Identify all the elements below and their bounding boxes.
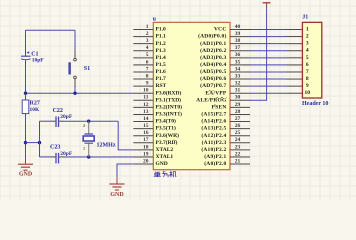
wire — [25, 114, 27, 156]
svg-text:(AD2)P0.2: (AD2)P0.2 — [200, 47, 226, 54]
wire pin 20 stub — [133, 163, 153, 165]
svg-text:XTAL1: XTAL1 — [156, 154, 174, 160]
svg-text:4: 4 — [146, 45, 149, 51]
svg-text:37: 37 — [235, 45, 241, 51]
svg-text:16: 16 — [143, 130, 149, 136]
svg-text:(A8)P2.0: (A8)P2.0 — [204, 160, 226, 167]
capacitor C1 — [21, 51, 31, 59]
crystal 12MHz — [83, 121, 116, 157]
svg-text:32: 32 — [235, 81, 241, 87]
wire pin 28 stub — [230, 113, 250, 115]
svg-text:10pF: 10pF — [32, 57, 45, 63]
svg-text:VCC: VCC — [214, 27, 227, 33]
svg-text:9: 9 — [306, 83, 309, 89]
wire pin 25 stub — [230, 135, 250, 137]
wire net IC pin 40 to header pin 1 — [250, 29, 287, 31]
svg-text:21: 21 — [235, 158, 241, 164]
svg-text:P3.0(RXD): P3.0(RXD) — [156, 89, 182, 96]
svg-text:(A9)P2.1: (A9)P2.1 — [204, 153, 226, 160]
svg-text:25: 25 — [235, 130, 241, 136]
svg-text:13: 13 — [143, 109, 149, 115]
svg-text:20: 20 — [143, 158, 149, 164]
wire — [74, 88, 76, 93]
wire GND pin20 net — [117, 164, 133, 177]
wire — [39, 121, 41, 157]
svg-text:39: 39 — [235, 31, 241, 37]
power VCC symbol — [263, 3, 271, 9]
svg-text:29: 29 — [235, 102, 241, 108]
svg-text:2: 2 — [83, 123, 85, 128]
wire net IC pin 31 to header pin 10 — [250, 92, 287, 94]
wire net IC pin 35 to header pin 6 — [250, 64, 287, 66]
svg-text:(AD0)P0.0): (AD0)P0.0) — [198, 33, 226, 40]
wire — [26, 142, 40, 144]
svg-text:P1.6: P1.6 — [156, 69, 166, 75]
wire pin 7 stub — [133, 71, 153, 73]
svg-text:EA/VPP: EA/VPP — [205, 90, 227, 96]
svg-text:(AD4)P0.4: (AD4)P0.4 — [200, 61, 226, 68]
wire header pin 5 stub — [287, 57, 303, 59]
wire header pin 7 stub — [287, 71, 303, 73]
svg-text:1: 1 — [146, 24, 149, 30]
wire pin 9 stub — [133, 85, 153, 87]
wire pin 30 stub — [230, 99, 250, 101]
wire — [25, 30, 27, 50]
svg-text:1: 1 — [306, 27, 309, 33]
wire pin 16 stub — [133, 135, 153, 137]
svg-text:(AD5)P0.5: (AD5)P0.5 — [200, 68, 226, 75]
wire header pin 3 stub — [287, 43, 303, 45]
svg-text:22: 22 — [235, 151, 241, 157]
ground GND right — [109, 177, 124, 190]
svg-text:P3.4(T0): P3.4(T0) — [156, 118, 176, 125]
svg-text:6: 6 — [146, 59, 149, 65]
svg-text:(AD6)P0.6: (AD6)P0.6 — [200, 75, 226, 82]
svg-text:6: 6 — [306, 62, 309, 68]
node junction crystal bottom — [87, 155, 90, 158]
wire pin 10 stub — [133, 92, 153, 94]
wire header pin 9 stub — [287, 85, 303, 87]
svg-text:(A11)P2.3: (A11)P2.3 — [202, 139, 227, 146]
svg-text:34: 34 — [235, 66, 241, 72]
svg-text:3: 3 — [146, 38, 149, 44]
wire pin 32 stub — [230, 85, 250, 87]
svg-text:9: 9 — [146, 81, 149, 87]
wire — [74, 30, 76, 50]
svg-text:15: 15 — [143, 123, 149, 129]
wire pin 3 stub — [133, 43, 153, 45]
svg-text:40: 40 — [235, 24, 241, 30]
node junction gnd tie — [24, 141, 27, 144]
svg-text:C23: C23 — [50, 145, 60, 151]
wire pin 18 stub — [133, 149, 153, 151]
svg-text:24: 24 — [235, 137, 241, 143]
wire pin 33 stub — [230, 78, 250, 80]
wire header pin 1 stub — [287, 29, 303, 31]
svg-text:11: 11 — [143, 95, 148, 101]
wire pin 8 stub — [133, 78, 153, 80]
svg-text:2: 2 — [146, 31, 149, 37]
wire — [25, 93, 27, 100]
wire pin 22 stub — [230, 156, 250, 158]
svg-text:10: 10 — [143, 88, 149, 94]
svg-text:35: 35 — [235, 59, 241, 65]
svg-text:17: 17 — [143, 137, 149, 143]
svg-text:GND: GND — [156, 161, 168, 167]
wire pin 4 stub — [133, 50, 153, 52]
wire — [118, 121, 133, 150]
wire pin 21 stub — [230, 163, 250, 165]
wire — [59, 120, 63, 122]
wire pin 40 stub — [230, 29, 250, 31]
svg-text:10K: 10K — [30, 107, 41, 113]
svg-text:P1.5: P1.5 — [156, 62, 166, 68]
wire — [40, 156, 51, 158]
wire pin 17 stub — [133, 142, 153, 144]
wire pin 36 stub — [230, 57, 250, 59]
svg-text:RST: RST — [156, 83, 167, 89]
svg-text:38: 38 — [235, 38, 241, 44]
wire pin 24 stub — [230, 142, 250, 144]
connector J1 Header 10 — [302, 22, 321, 98]
svg-text:(A14)P2.6: (A14)P2.6 — [201, 118, 226, 125]
svg-text:33: 33 — [235, 74, 241, 80]
svg-text:(A13)P2.5: (A13)P2.5 — [201, 125, 226, 132]
svg-text:P3.1(TXD): P3.1(TXD) — [156, 96, 182, 103]
svg-text:4: 4 — [306, 48, 309, 54]
wire header pin 6 stub — [287, 64, 303, 66]
svg-text:P3.3(INT1): P3.3(INT1) — [156, 111, 183, 118]
svg-text:14: 14 — [143, 116, 149, 122]
wire — [26, 29, 76, 31]
svg-text:P1.1: P1.1 — [156, 34, 166, 40]
svg-text:P1.0: P1.0 — [156, 27, 166, 33]
wire pin 5 stub — [133, 57, 153, 59]
wire pin 39 stub — [230, 36, 250, 38]
wire net IC pin 32 to header pin 9 — [250, 85, 287, 87]
wire header pin 2 stub — [287, 36, 303, 38]
svg-text:(A15)P2.7: (A15)P2.7 — [201, 111, 226, 118]
wire VCC vertical to ALE — [250, 8, 267, 100]
wire pin 27 stub — [230, 121, 250, 123]
svg-text:26: 26 — [235, 123, 241, 129]
svg-text:(AD7)P0.7: (AD7)P0.7 — [200, 82, 226, 89]
wire header pin 4 stub — [287, 50, 303, 52]
svg-text:27: 27 — [235, 116, 241, 122]
wire net IC pin 39 to header pin 2 — [250, 36, 287, 38]
svg-text:PSEN: PSEN — [212, 105, 227, 111]
svg-text:GND: GND — [19, 171, 33, 177]
svg-text:7: 7 — [306, 69, 309, 75]
wire pin 26 stub — [230, 128, 250, 130]
svg-text:1: 1 — [83, 146, 85, 151]
wire pin 6 stub — [133, 64, 153, 66]
svg-text:P1.2: P1.2 — [156, 41, 166, 47]
svg-text:3: 3 — [306, 41, 309, 47]
node junction C1/R27 — [24, 92, 27, 95]
svg-text:J1: J1 — [302, 15, 308, 21]
capacitor C23 — [56, 153, 59, 164]
wire net IC pin 34 to header pin 7 — [250, 71, 287, 73]
svg-text:12: 12 — [143, 102, 149, 108]
svg-text:Header 10: Header 10 — [302, 101, 328, 107]
svg-text:P3.2(INT0): P3.2(INT0) — [156, 104, 183, 111]
wire pin 23 stub — [230, 149, 250, 151]
svg-text:(AD1)P0.1: (AD1)P0.1 — [200, 40, 226, 47]
node junction S1 bottom — [73, 92, 76, 95]
svg-text:23: 23 — [235, 144, 241, 150]
wire — [40, 120, 51, 122]
wire pin 35 stub — [230, 64, 250, 66]
svg-text:36: 36 — [235, 52, 241, 58]
wire net IC pin 37 to header pin 4 — [250, 50, 287, 52]
wire pin 12 stub — [133, 106, 153, 108]
svg-text:(AD3)P0.3: (AD3)P0.3 — [200, 54, 226, 61]
svg-text:19: 19 — [143, 151, 149, 157]
wire pin 14 stub — [133, 121, 153, 123]
svg-text:5: 5 — [306, 55, 309, 61]
wire pin 31 stub — [230, 92, 250, 94]
wire pin 37 stub — [230, 50, 250, 52]
svg-text:2: 2 — [306, 34, 309, 40]
svg-text:S1: S1 — [84, 66, 90, 72]
svg-text:28: 28 — [235, 109, 241, 115]
wire header pin 8 stub — [287, 78, 303, 80]
svg-text:7: 7 — [146, 66, 149, 72]
svg-text:R27: R27 — [30, 101, 40, 107]
node junction caps common — [38, 141, 41, 144]
wire pin 34 stub — [230, 71, 250, 73]
wire — [25, 60, 27, 64]
svg-text:12MHz: 12MHz — [97, 142, 116, 148]
svg-text:10: 10 — [305, 90, 311, 96]
svg-text:P1.3: P1.3 — [156, 48, 166, 54]
svg-text:(A10)P2.2: (A10)P2.2 — [201, 146, 226, 153]
wire pin 29 stub — [230, 106, 250, 108]
svg-text:P1.4: P1.4 — [156, 55, 166, 61]
svg-text:20pF: 20pF — [60, 151, 73, 157]
wire pin 38 stub — [230, 43, 250, 45]
svg-text:20pF: 20pF — [60, 114, 73, 120]
ground GND left — [18, 156, 33, 171]
svg-text:GND: GND — [110, 192, 124, 198]
resistor R27 — [22, 100, 29, 114]
wire pin 19 stub — [133, 156, 153, 158]
svg-text:XTAL2: XTAL2 — [156, 147, 174, 153]
wire pin 2 stub — [133, 36, 153, 38]
svg-text:5: 5 — [146, 52, 149, 58]
svg-text:8: 8 — [146, 74, 149, 80]
wire pin 13 stub — [133, 113, 153, 115]
wire net IC pin 36 to header pin 5 — [250, 57, 287, 59]
IC U 8051 microcontroller 单片机 — [153, 22, 230, 169]
svg-text:P3.7(RD): P3.7(RD) — [156, 139, 178, 146]
svg-text:(A12)P2.4: (A12)P2.4 — [201, 132, 226, 139]
capacitor C22 — [56, 117, 59, 128]
svg-text:ALE/PROG: ALE/PROG — [196, 97, 227, 103]
switch S1 — [68, 50, 90, 88]
svg-text:30: 30 — [235, 95, 241, 101]
wire — [26, 92, 134, 94]
wire header pin 10 stub — [287, 92, 303, 94]
svg-text:31: 31 — [235, 88, 241, 94]
svg-text:P1.7: P1.7 — [156, 76, 166, 82]
wire pin 1 stub — [133, 29, 153, 31]
svg-text:P3.6(WR): P3.6(WR) — [156, 132, 180, 139]
wire net IC pin 33 to header pin 8 — [250, 78, 287, 80]
wire — [59, 156, 63, 158]
svg-text:P3.5(T1): P3.5(T1) — [156, 125, 176, 132]
wire pin 15 stub — [133, 128, 153, 130]
svg-text:18: 18 — [143, 144, 149, 150]
svg-text:8: 8 — [306, 76, 309, 82]
wire pin 11 stub — [133, 99, 153, 101]
node junction crystal top — [87, 120, 90, 123]
wire net IC pin 38 to header pin 3 — [250, 43, 287, 45]
